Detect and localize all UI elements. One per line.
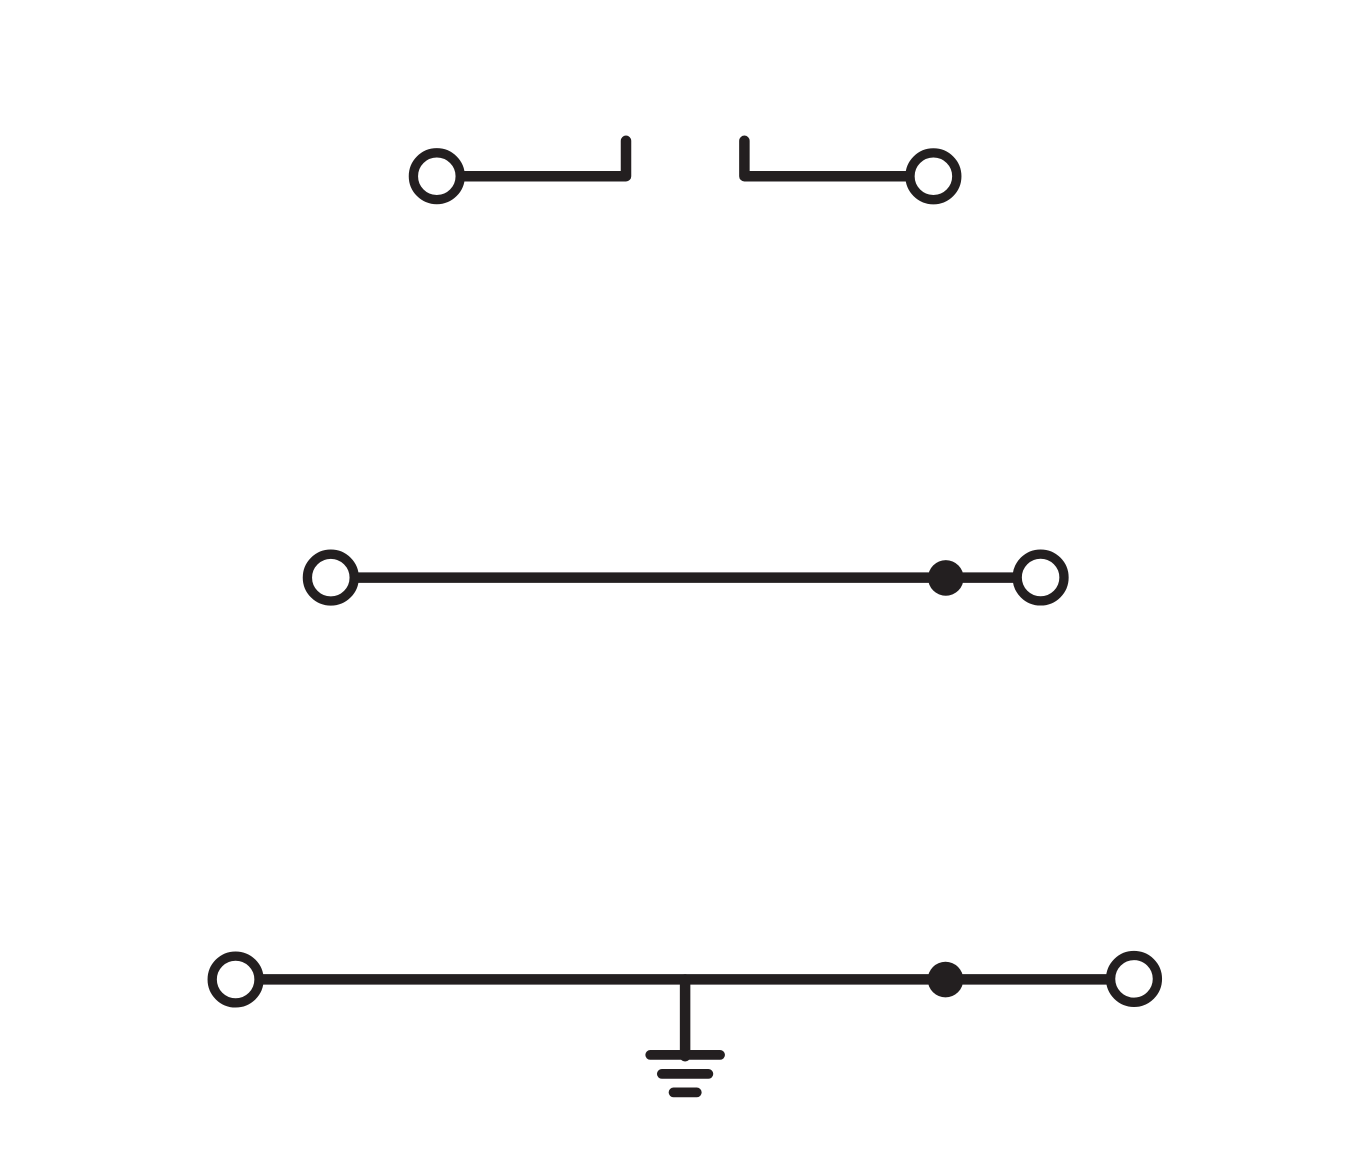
ground stem wire (680, 979, 691, 1056)
terminal circle 5 (bottom-left clamp point) (212, 956, 259, 1003)
terminal circle 2 (top-right clamp point) (910, 153, 957, 200)
ground bar 2 (medium) (662, 1069, 709, 1079)
ground bar 3 (short) (674, 1088, 697, 1098)
ground bar 1 (long) (650, 1050, 720, 1060)
terminal circle 1 (top-left clamp point) (413, 153, 460, 200)
terminal circle 6 (bottom-right clamp point) (1111, 956, 1158, 1003)
wire bottom feed-through (262, 974, 1109, 985)
wire top-right segment with upturned break stub (744, 141, 907, 176)
wire middle feed-through (357, 572, 1015, 583)
junction dot bottom (928, 962, 964, 998)
junction dot middle (928, 560, 964, 596)
terminal circle 4 (middle-right clamp point) (1017, 554, 1064, 601)
wire top-left segment with upturned break stub (463, 141, 627, 176)
terminal circle 3 (middle-left clamp point) (307, 554, 354, 601)
